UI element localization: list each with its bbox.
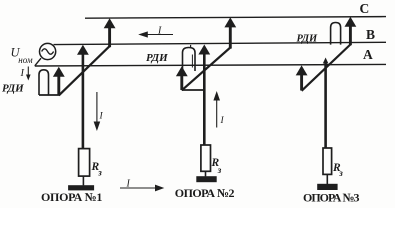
tower2 arrow to phase B and down-lead [198,45,210,146]
wire phase B [54,42,387,44]
arrester tube РДИ 3 [331,23,341,45]
tower3 arrow to phase C [345,17,357,46]
wire diagonal tower2 [182,47,231,90]
svg-text:С: С [360,1,370,16]
label R3 tower3 [332,162,343,178]
current arrow I down tower1 [94,92,104,131]
svg-text:ОПОРА №1: ОПОРА №1 [41,190,102,204]
resistor R3 tower1 [79,149,90,177]
ground tower1 [68,185,94,190]
resistor R3 tower3 [323,148,332,174]
svg-text:I: I [157,26,162,37]
AC source U ном [40,43,56,59]
tower1 arrow to phase A [53,67,65,95]
tower3 arrow to phase A [296,65,308,90]
svg-text:РДИ: РДИ [2,83,24,95]
arrester tube 2 inner rod [191,55,193,68]
wire source to phase A [35,58,41,66]
tower3 down-lead with small arrow [323,58,329,149]
label R3 tower1 [91,161,103,178]
wire resistor to ground tower2 [205,171,207,176]
wire bottom tower2 [182,89,205,91]
svg-text:з: з [217,165,222,175]
arrester tube РДИ 2 [183,48,196,72]
current arrow I down at source [20,67,31,81]
wire resistor to ground tower1 [82,176,84,185]
svg-text:з: з [97,168,102,178]
svg-text:РДИ: РДИ [146,52,168,64]
ground tower3 [317,184,337,190]
arrester tube РДИ 1 [39,70,49,95]
svg-text:з: з [338,168,343,178]
tower1 arrow to phase C [104,18,116,47]
svg-text:А: А [363,47,373,62]
current arrow I left on phase C [138,26,173,38]
svg-text:ОПОРА №2: ОПОРА №2 [175,186,235,200]
tower2 arrow to phase C [224,17,236,48]
label R3 tower2 [211,157,222,175]
svg-text:В: В [366,27,375,42]
wire phase A [35,64,386,66]
svg-text:I: I [20,68,25,79]
svg-text:РДИ: РДИ [297,34,319,45]
wire diagonal tower3 [302,44,351,91]
label U ном [11,46,33,66]
arrester tube 2 top nub [190,45,192,48]
resistor R3 tower2 [201,145,211,171]
wire bottom tower1 [39,94,60,96]
svg-text:ном: ном [18,55,33,65]
svg-text:ОПОРА №3: ОПОРА №3 [303,190,360,204]
current arrow I right between towers [120,179,164,192]
current arrow I up tower2 [213,91,224,128]
tower1 arrow to phase B and down-lead [77,45,89,149]
ground tower2 [196,176,216,182]
wire phase C [85,17,386,19]
svg-text:I: I [126,179,131,190]
wire resistor to ground tower3 [326,174,328,184]
wire diagonal tower1 [59,46,110,96]
tower2 arrow to phase A [176,66,188,90]
